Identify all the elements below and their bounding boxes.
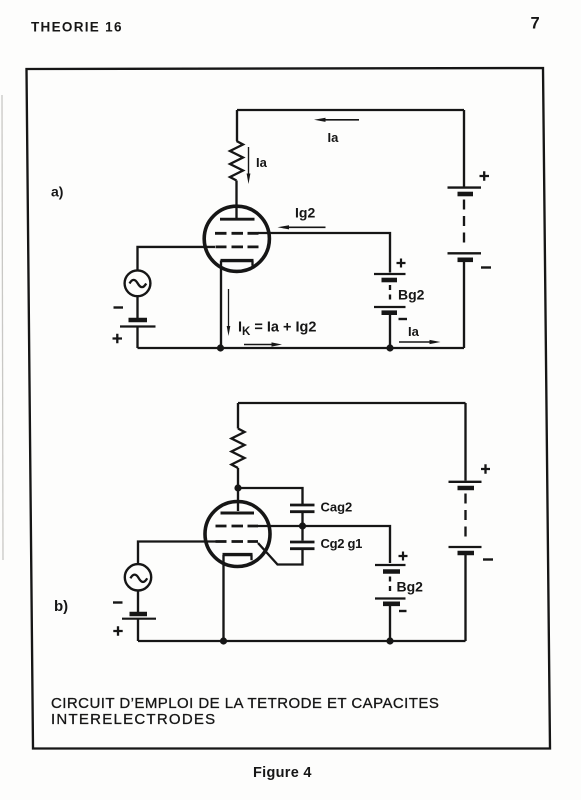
cell 2 long plate	[448, 252, 482, 254]
dashed link	[389, 577, 391, 595]
battery Ba (anode supply, circuit b)	[449, 464, 494, 559]
current arrow Ig2 (pointing left into g2)	[278, 205, 326, 230]
AC signal source (circuit a)	[125, 270, 151, 296]
wire: right rail bottom (circuit b)	[464, 555, 466, 641]
cell 2 thick plate	[383, 601, 400, 606]
cathode bar	[223, 553, 253, 556]
cell 1 long plate	[374, 273, 406, 275]
wire: right rail bottom (circuit a)	[463, 262, 465, 348]
cell 1 long plate	[449, 481, 482, 483]
svg-text:Ig2: Ig2	[295, 205, 315, 221]
cell 2 long plate	[449, 546, 482, 548]
cell 1 thick plate	[382, 278, 398, 283]
battery Bg2 (circuit b)	[375, 552, 423, 612]
capacitor Cg2g1	[290, 536, 362, 551]
wire: g2 to Bg2 branch (circuit a)	[258, 233, 390, 273]
wire: anode node to Cag2 top	[238, 488, 303, 504]
minus sign (bias battery b)	[113, 601, 123, 603]
cell 2 thick plate	[458, 257, 474, 262]
bias battery (circuit a): long plate bottom	[120, 325, 156, 327]
minus sign	[483, 558, 493, 560]
minus sign (bias battery a)	[114, 306, 124, 308]
wire: resistor bottom to anode of tube a	[235, 181, 237, 219]
svg-text:Ia: Ia	[328, 130, 340, 145]
wire: g2 node down to Cg2g1 top	[301, 526, 303, 541]
tetrode tube V1 (circuit a)	[204, 206, 269, 271]
wire: bias battery to rail (circuit a)	[136, 327, 138, 349]
wire: cathode lead down to bottom rail (circuit a)	[220, 261, 222, 349]
dashed link	[389, 285, 391, 302]
wire: drop from top wire to resistor	[236, 110, 238, 141]
tetrode tube V1 (circuit b)	[205, 502, 270, 567]
wire: bottom rail (circuit a)	[138, 347, 465, 349]
envelope circle	[205, 502, 270, 567]
svg-text:a): a)	[51, 184, 63, 200]
wire: g1 to AC source (circuit a)	[138, 247, 216, 270]
cell 1 long plate	[375, 564, 406, 566]
anode plate bar	[221, 512, 255, 515]
current arrow Ia on top wire (pointing left)	[314, 118, 359, 145]
junction dot: Bg2/rail (b)	[386, 637, 393, 644]
control grid g1 (dashed)	[216, 540, 259, 543]
control grid g1 (dashed)	[216, 245, 259, 248]
svg-text:b): b)	[54, 598, 68, 615]
wire: Bg2 bottom to rail	[389, 315, 391, 348]
wire: drop to resistor (b)	[237, 403, 239, 429]
battery Ba (anode supply, circuit a)	[448, 171, 492, 267]
anode plate bar	[220, 218, 255, 221]
svg-text:Bg2: Bg2	[398, 287, 425, 303]
cathode right leg	[251, 261, 253, 266]
wire: cathode lead to rail (circuit b)	[222, 555, 224, 641]
wire: resistor to anode node (b)	[237, 468, 239, 511]
svg-text:7: 7	[531, 15, 540, 33]
wire: Bg2 bottom to rail (b)	[389, 606, 391, 641]
svg-text:INTERELECTRODES: INTERELECTRODES	[51, 711, 216, 728]
screen grid g2 (dashed)	[216, 525, 259, 528]
wire: bias battery to rail (b)	[137, 619, 139, 641]
current arrow Ia beside resistor a	[247, 147, 268, 184]
envelope circle	[204, 206, 269, 271]
svg-text:THEORIE 16: THEORIE 16	[31, 20, 123, 35]
dashed link	[464, 494, 466, 542]
wire: Cg2g1 bottom to g1 (diagonal into tube)	[258, 543, 303, 565]
svg-text:Cag2: Cag2	[321, 500, 353, 515]
minus sign	[481, 266, 491, 268]
resistor Ra (anode load, circuit b)	[232, 429, 245, 469]
AC signal source (circuit b)	[125, 564, 151, 590]
cell 2 thick plate	[458, 551, 475, 556]
bias battery (circuit a): thick plate top	[129, 318, 148, 322]
plus sign	[480, 171, 490, 180]
junction dot: anode node (b)	[234, 484, 241, 491]
current arrow along rail under IK label (pointing right)	[244, 342, 282, 346]
cell 1 thick plate	[458, 192, 474, 197]
wire: Cag2 bottom to g2 node	[301, 512, 303, 526]
wire: top horizontal (anode supply) circuit a	[237, 109, 464, 111]
bias battery (circuit b): thick plate top	[130, 612, 148, 616]
svg-text:CIRCUIT D’EMPLOI DE LA TETRODE: CIRCUIT D’EMPLOI DE LA TETRODE ET CAPACI…	[51, 695, 439, 712]
junction dot: Bg2/rail (a)	[386, 344, 393, 351]
wire: top horizontal (circuit b)	[238, 402, 466, 404]
plus sign	[481, 464, 490, 473]
bias battery (circuit b): long plate bottom	[122, 618, 156, 620]
wire: g1 to AC source (circuit b)	[138, 542, 216, 564]
svg-text:Ia: Ia	[256, 155, 268, 170]
current arrow IK (cathode, pointing down)	[227, 289, 231, 336]
svg-text:Bg2: Bg2	[397, 579, 424, 595]
svg-text:Cg2 g1: Cg2 g1	[321, 536, 363, 551]
junction dot: cathode/rail (b)	[220, 637, 227, 644]
plus sign Bg2	[397, 259, 406, 268]
dashed link	[463, 200, 465, 247]
svg-text:Figure 4: Figure 4	[253, 765, 312, 781]
cell 2 thick plate	[382, 310, 398, 315]
screen grid g2 (dashed)	[215, 232, 259, 235]
svg-text:IK = Ia + Ig2: IK = Ia + Ig2	[238, 320, 316, 338]
junction dot: cathode/rail (a)	[217, 344, 224, 351]
cell 1 thick plate	[383, 569, 400, 574]
plus sign (bias battery b)	[113, 626, 122, 635]
cathode right leg	[250, 555, 252, 561]
svg-text:Ia: Ia	[408, 324, 420, 339]
minus sign Bg2 (b)	[399, 610, 407, 612]
scan edge artifact left	[2, 95, 3, 560]
plus sign (bias battery a)	[113, 334, 123, 343]
wire: AC to bias battery (b)	[137, 591, 139, 612]
wire: g2 to Bg2 branch (circuit b)	[258, 526, 391, 563]
wire: bottom rail (circuit b)	[138, 640, 466, 642]
minus sign Bg2	[399, 318, 408, 320]
junction dot: g2/cap node (b)	[299, 522, 306, 529]
cathode bar	[221, 259, 254, 262]
wire: right rail top (circuit a)	[463, 110, 465, 187]
plus sign Bg2 (b)	[399, 552, 408, 561]
battery Bg2 (circuit a)	[374, 259, 425, 320]
wire: right rail top (circuit b)	[464, 403, 466, 481]
capacitor Cag2	[290, 500, 352, 515]
cell 2 long plate	[374, 306, 406, 308]
resistor Ra (anode load, circuit a)	[230, 141, 243, 181]
wire: AC source to bias battery (circuit a)	[136, 296, 138, 318]
current arrow Ia near bottom right (pointing right)	[399, 324, 441, 344]
cell 1 long plate	[448, 186, 482, 188]
cell 2 long plate	[375, 597, 406, 599]
figure border frame	[27, 68, 551, 749]
cell 1 thick plate	[458, 486, 475, 491]
